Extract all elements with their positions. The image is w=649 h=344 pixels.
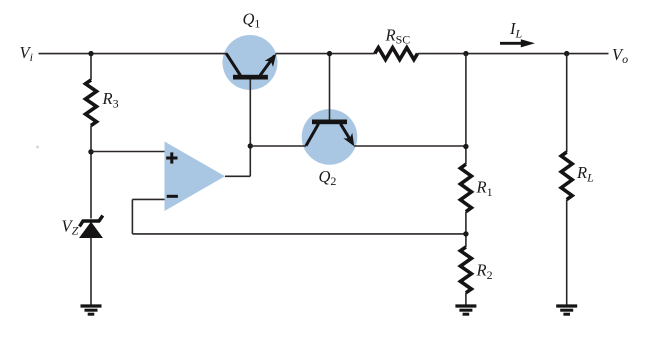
resistor R2 [460,247,471,293]
wire op-amp output [225,146,250,176]
stray faint speck [36,146,39,149]
ground (below RL) [556,306,577,314]
transistor Q2 circle highlight [302,109,358,165]
node Q2 emitter / R1 top junction [463,144,468,149]
resistor R3 [86,80,97,126]
wire top rail: Vi to Q1 collector [39,53,228,55]
wire Q2 base vertical [329,54,331,120]
node op-amp output / Q1 base / Q2 collector [248,143,253,148]
wire Q2 emitter horizontal to R1 top node [354,145,466,147]
wire top rail: RSC right to Vo [418,53,609,55]
ground (below R2) [455,306,476,314]
node RL branch junction [564,51,569,56]
wire Q2 collector horizontal [250,145,306,147]
node Q2 base tap on top rail [327,51,332,56]
wire op-amp - input [132,198,164,200]
wire top rail: Q1 emitter to RSC left [276,53,375,55]
node Vi/R3 junction [88,51,93,56]
transistor Q2 [306,120,359,149]
wire R1 branch vertical [465,54,467,305]
wire op-amp + input [91,151,165,153]
wire left branch vertical: Vi node down through R3 and zener to ground [90,54,92,305]
transistor Q1 circle highlight [223,35,278,90]
wire feedback: across to R1/R2 junction [132,233,466,235]
resistor R1 [460,164,471,212]
node R3/zener/op-amp+ junction [88,149,93,154]
wire RL branch vertical [566,54,568,305]
arrow IL on output rail [500,39,535,47]
transistor Q1 [226,51,280,80]
ground (left, below zener) [81,306,102,314]
resistor RSC [375,48,418,60]
wire feedback: - input down [131,199,133,234]
zener diode VZ [80,216,103,238]
op-amp U1 [165,142,226,212]
resistor RL [561,152,572,200]
node Vo rail / R1 branch junction [463,51,468,56]
wire Q1 base vertical [249,80,251,147]
node R1/R2/feedback junction [463,231,468,236]
